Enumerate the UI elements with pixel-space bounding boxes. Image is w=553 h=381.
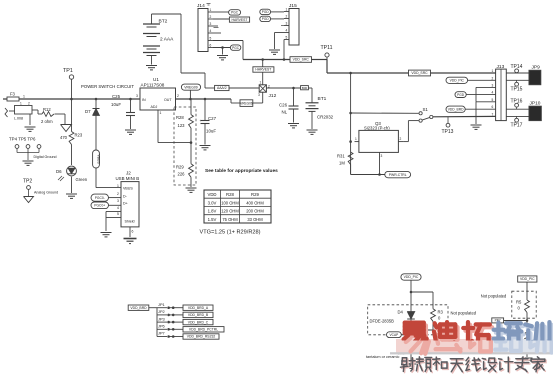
net label VDD_BRD_C: [183, 319, 213, 324]
net label VREG06: [240, 100, 253, 107]
wire R29 to ground: [190, 177, 192, 187]
svg-text:OUT: OUT: [164, 98, 172, 102]
net label VDD_SRC: [290, 57, 312, 63]
net label PGD oval J13: [455, 92, 466, 98]
svg-text:1: 1: [23, 95, 25, 99]
svg-text:VDD_SRC: VDD_SRC: [411, 71, 428, 75]
svg-text:75 OHM: 75 OHM: [222, 217, 238, 222]
svg-text:VREG09: VREG09: [184, 85, 197, 89]
svg-text:3: 3: [286, 21, 288, 25]
wire shield pin to ground: [129, 227, 131, 237]
net label PGC oval J14 pin6: [230, 45, 240, 50]
net label HARVEST J14 pin2: [213, 18, 229, 20]
resistor R5: [525, 300, 530, 313]
svg-text:PGD: PGD: [457, 93, 465, 97]
svg-text:470: 470: [60, 135, 68, 140]
wire USB pins 4,5 to ground: [106, 211, 121, 213]
wire AAA/2 run: [205, 87, 215, 89]
svg-text:R28: R28: [226, 192, 234, 197]
svg-text:2 AAA: 2 AAA: [160, 37, 174, 43]
svg-text:4: 4: [117, 206, 119, 210]
svg-text:2: 2: [286, 14, 288, 18]
svg-text:Shield: Shield: [125, 220, 135, 224]
svg-text:3: 3: [258, 93, 260, 97]
svg-text:3: 3: [117, 199, 119, 203]
ground VCAP: [406, 363, 417, 365]
svg-text:See table for appropriate valu: See table for appropriate values: [205, 168, 278, 174]
dashed box not populated D4 R3: [368, 305, 448, 335]
svg-text:PGC: PGC: [231, 11, 239, 15]
wire J12 right to BT1: [266, 87, 300, 89]
svg-text:U1: U1: [153, 77, 159, 82]
svg-text:TP2: TP2: [23, 179, 32, 185]
svg-text:R23: R23: [75, 133, 83, 138]
svg-text:TP4 TP5 TP6: TP4 TP5 TP6: [9, 137, 36, 142]
wire VDD_SRC to switch branch: [350, 73, 352, 175]
svg-text:2: 2: [400, 137, 402, 141]
dashed box not populated R5: [512, 291, 536, 318]
jumper JP3: [157, 321, 167, 323]
LED D6 Green: [67, 166, 77, 176]
svg-text:R28: R28: [176, 115, 184, 120]
svg-text:4: 4: [286, 28, 288, 32]
svg-text:1: 1: [160, 111, 162, 115]
svg-text:J2: J2: [126, 171, 131, 176]
svg-text:R29: R29: [176, 164, 184, 169]
net label AAA/2: [215, 85, 229, 90]
wire switch common to J13: [433, 115, 496, 117]
svg-text:C27: C27: [208, 116, 217, 121]
ground J13: [471, 124, 482, 126]
svg-text:TP13: TP13: [442, 129, 454, 135]
svg-text:JP3: JP3: [158, 316, 165, 321]
svg-text:S1: S1: [423, 107, 429, 112]
svg-text:DFDE-2835B: DFDE-2835B: [370, 319, 395, 324]
svg-text:R5: R5: [516, 300, 522, 305]
svg-text:D7: D7: [85, 109, 91, 114]
svg-text:1: 1: [492, 69, 494, 73]
watermark small glyph ji: [500, 358, 514, 373]
jumper JP7: [157, 336, 167, 338]
svg-text:TP17: TP17: [511, 123, 523, 129]
svg-text:JP2: JP2: [158, 309, 165, 314]
svg-text:USB MINI B: USB MINI B: [116, 176, 140, 181]
svg-text:VDD_PIC: VDD_PIC: [404, 275, 419, 279]
svg-text:1: 1: [117, 184, 119, 188]
svg-text:NL: NL: [282, 110, 288, 115]
svg-text:2: 2: [210, 15, 212, 19]
svg-text:1: 1: [260, 81, 262, 85]
wire VREG06 to J12: [253, 102, 263, 104]
watermark small glyph xian: [467, 359, 481, 372]
wire D4 to VCAP node: [410, 319, 412, 340]
net label VDD_BRD_B: [183, 312, 213, 317]
wire Q3 gate: [379, 152, 381, 174]
capacitor C27: [204, 98, 207, 101]
wire VDD_BRD to jumpers: [149, 307, 157, 309]
wire BT2 positive: [151, 14, 153, 24]
wire J13 pin6 to JP10: [506, 108, 529, 110]
wire R5 to node: [526, 313, 528, 330]
svg-text:VDD_SRC: VDD_SRC: [293, 58, 310, 62]
watermark small glyph he: [434, 358, 448, 370]
svg-text:3.0V: 3.0V: [208, 200, 217, 205]
wire J13 pin3 to ground: [476, 86, 496, 88]
fuse F3: [7, 97, 19, 101]
net label PWR-CTRL oval: [385, 171, 411, 177]
svg-text:R3: R3: [438, 310, 444, 315]
resistor R29: [189, 164, 194, 177]
wire TP11 down: [326, 60, 328, 74]
svg-text:2: 2: [177, 94, 179, 98]
watermark big glyph tuo: [465, 325, 492, 352]
resistor R3: [431, 309, 436, 322]
net label VDD_PIC oval bottom: [401, 274, 421, 280]
svg-text:6: 6: [210, 43, 212, 47]
ground jack: [29, 114, 31, 125]
svg-text:2 ohm: 2 ohm: [41, 119, 53, 124]
wire VDD_PIC right down: [526, 282, 528, 300]
svg-text:1: 1: [20, 102, 22, 106]
capacitor C26: [293, 88, 295, 106]
svg-text:C25: C25: [112, 94, 121, 99]
svg-text:120 OHM: 120 OHM: [221, 209, 239, 214]
svg-text:Si2323 (P-ch): Si2323 (P-ch): [364, 125, 390, 130]
dashed box R28 R29: [174, 107, 196, 185]
svg-text:1M: 1M: [339, 161, 345, 166]
net label BAT: [301, 86, 309, 90]
svg-text:2: 2: [28, 102, 30, 106]
resistor R28: [190, 99, 192, 115]
test point TP17: [516, 116, 518, 118]
svg-text:1: 1: [355, 137, 357, 141]
svg-text:L.008: L.008: [14, 117, 23, 121]
net label VDD_PIC rect right: [518, 276, 537, 282]
svg-text:VDD_BRD_C: VDD_BRD_C: [188, 320, 209, 324]
svg-text:ADJ: ADJ: [151, 105, 158, 109]
svg-text:VDD_BRD_B: VDD_BRD_B: [188, 313, 209, 317]
net label VCAP oval: [387, 332, 402, 338]
svg-text:VDD_BRD: VDD_BRD: [130, 306, 147, 310]
svg-text:TP11: TP11: [321, 45, 333, 51]
svg-text:JP7: JP7: [158, 331, 165, 336]
watermark big glyph xun: [527, 325, 551, 353]
svg-text:100 OHM: 100 OHM: [221, 200, 239, 205]
svg-text:123: 123: [178, 123, 186, 128]
svg-text:Not populated: Not populated: [451, 311, 477, 316]
wire R28 to ADJ node: [190, 128, 192, 164]
resistor R12: [42, 112, 54, 117]
svg-text:D+: D+: [123, 202, 128, 206]
wire VDD_SRC main run: [327, 72, 409, 74]
net label VREG09 (oval): [181, 84, 200, 90]
net label VDD_BRD_PCTRL: [183, 327, 224, 332]
no-connect J14 pin3: [213, 25, 218, 27]
watermark big glyph di: [436, 325, 461, 352]
svg-text:tantalum or ceramic: tantalum or ceramic: [366, 355, 399, 359]
svg-text:10uF: 10uF: [111, 102, 121, 107]
ground C27: [200, 145, 211, 147]
ground C25: [125, 129, 136, 131]
svg-text:1.5V: 1.5V: [208, 217, 217, 222]
svg-text:VREG06: VREG06: [240, 101, 253, 105]
svg-text:VTG=1.25 (1+ R29/R28): VTG=1.25 (1+ R29/R28): [200, 230, 261, 236]
table resistor values: [204, 190, 271, 223]
wire J13 pin1 to JP9: [506, 72, 529, 74]
svg-text:D4: D4: [398, 310, 404, 315]
ground R4: [522, 357, 533, 359]
ground BT1: [307, 129, 318, 131]
svg-text:BT1: BT1: [318, 96, 327, 102]
wire J14 pin4: [213, 32, 221, 34]
wire VDD_SRC horizontal: [243, 59, 290, 61]
watermark small glyph jia: [532, 358, 546, 373]
svg-text:5: 5: [286, 35, 288, 39]
svg-text:HARVEST: HARVEST: [255, 68, 271, 72]
svg-text:Not populated: Not populated: [481, 293, 507, 298]
svg-text:AP1117S08: AP1117S08: [141, 83, 165, 88]
svg-text:400 OHM: 400 OHM: [246, 200, 264, 205]
wire R23 to LED D6: [71, 145, 73, 166]
capacitor C24 tantalum: [406, 339, 416, 341]
net label PGD0+ (oval): [91, 202, 109, 209]
wire J15 pin4 to ground: [275, 32, 285, 34]
ground J14: [217, 55, 228, 57]
svg-text:PGC0-: PGC0-: [95, 196, 105, 200]
svg-text:3: 3: [381, 154, 383, 158]
wire R12 to node: [55, 113, 66, 115]
svg-text:6: 6: [132, 230, 134, 234]
watermark small glyph tian: [452, 360, 465, 373]
net label PGD0 oval J14 pin1: [213, 11, 229, 13]
wire jack to R12: [32, 109, 38, 111]
test point TP13: [447, 117, 449, 124]
wire J15 pin5 to VDD_SRC: [283, 39, 285, 41]
ground digital: [23, 160, 34, 162]
net label VDD_BRD_A: [183, 305, 213, 310]
svg-text:1.8V: 1.8V: [208, 209, 217, 214]
svg-text:VDD_BRD: VDD_BRD: [448, 107, 464, 111]
svg-text:1: 1: [286, 7, 288, 11]
svg-text:B00: B00: [302, 86, 308, 90]
svg-text:PWR-CTRL: PWR-CTRL: [389, 173, 407, 177]
svg-text:VDD_BRD_PCTRL: VDD_BRD_PCTRL: [189, 328, 218, 332]
net label VDD_BRD oval: [446, 106, 465, 112]
wire HARVEST vertical: [262, 60, 264, 67]
wire OUT rail: [176, 98, 232, 100]
resistor R23 470: [69, 132, 74, 145]
watermark small glyph zhuan: [516, 358, 530, 373]
svg-text:2: 2: [117, 192, 119, 196]
svg-text:R12: R12: [43, 107, 51, 112]
svg-text:Green: Green: [76, 177, 88, 182]
watermark small glyph she2: [483, 359, 497, 372]
net label PB7: [492, 318, 504, 323]
wire to switch upper throw: [351, 112, 419, 114]
svg-text:1: 1: [210, 8, 212, 12]
net label VBUS vertical: [93, 150, 100, 168]
svg-text:TP15: TP15: [511, 87, 523, 93]
svg-text:VDD_BRD_A: VDD_BRD_A: [188, 306, 209, 310]
svg-text:D6: D6: [56, 169, 62, 174]
svg-text:2: 2: [492, 76, 494, 80]
net label PGD oval J15 pin2: [260, 16, 271, 21]
svg-text:VDD_PIC: VDD_PIC: [520, 277, 535, 281]
ground USB pins: [101, 232, 112, 234]
connector J1 power jack: [5, 108, 8, 117]
wire J14 pin5 to VDD_SRC run: [213, 40, 243, 42]
svg-text:Digital Ground: Digital Ground: [34, 155, 57, 159]
wire VBUS to USB pin1: [95, 168, 97, 188]
svg-text:PGD: PGD: [262, 10, 270, 14]
svg-text:POWER SWITCH CIRCUIT: POWER SWITCH CIRCUIT: [81, 84, 134, 89]
power flag node: [61, 125, 72, 132]
wire J13 pin7 to JP10: [506, 115, 529, 117]
diode D7: [95, 98, 98, 101]
wire R31 to PWR-CTRL: [350, 165, 352, 175]
jumper J12: [259, 85, 266, 92]
svg-text:5: 5: [210, 36, 212, 40]
svg-text:F3: F3: [10, 92, 16, 97]
svg-text:C26: C26: [279, 103, 288, 108]
watermark small glyph she1: [402, 359, 417, 373]
wire VDD_PIC down: [410, 280, 412, 311]
svg-text:4: 4: [210, 29, 212, 33]
svg-text:7: 7: [492, 112, 494, 116]
no-connect J15 pin3: [281, 25, 284, 27]
ground analog: [24, 197, 34, 203]
svg-text:200 OHM: 200 OHM: [246, 209, 264, 214]
ground BT2: [146, 65, 157, 67]
svg-text:6: 6: [492, 105, 494, 109]
capacitor C25: [129, 98, 132, 101]
svg-text:Analog Ground: Analog Ground: [34, 191, 58, 195]
svg-text:JP6: JP6: [158, 324, 165, 329]
svg-text:R31: R31: [337, 154, 345, 159]
svg-text:4: 4: [492, 91, 494, 95]
svg-text:VDD_BRD_RS232: VDD_BRD_RS232: [187, 335, 216, 339]
jumper JP1: [157, 307, 167, 309]
wire TP1 down to flag: [71, 99, 73, 132]
diode D4: [407, 312, 415, 320]
resistor R4 1K: [525, 329, 530, 342]
svg-text:J12: J12: [269, 93, 277, 99]
jumper JP2: [157, 314, 167, 316]
wire J13 pin5 to ground: [476, 101, 496, 103]
svg-text:IN: IN: [142, 98, 146, 102]
svg-text:5: 5: [492, 98, 494, 102]
wire R4 to ground: [526, 342, 528, 357]
svg-text:HARVEST: HARVEST: [232, 18, 248, 22]
svg-text:10uF: 10uF: [206, 129, 216, 134]
resistor R31 1M: [348, 152, 353, 165]
ground R29: [186, 187, 197, 189]
watermark small glyph pin: [418, 358, 433, 373]
svg-text:VDD: VDD: [207, 192, 216, 197]
net label VDD_BRD_RS232: [183, 334, 219, 339]
ground shield: [124, 238, 137, 240]
svg-text:TP1: TP1: [63, 68, 73, 74]
ground J15: [269, 49, 280, 51]
svg-text:PGD: PGD: [262, 17, 270, 21]
svg-text:226: 226: [178, 172, 186, 177]
wire LED to ground: [71, 177, 73, 193]
wire ADJ pin: [157, 110, 159, 143]
svg-text:VDD_PIC: VDD_PIC: [450, 78, 465, 82]
svg-text:JP1: JP1: [158, 302, 165, 307]
svg-text:VBUS: VBUS: [97, 154, 101, 164]
svg-text:PGC0+: PGC0+: [94, 203, 105, 207]
ground C26: [288, 123, 299, 125]
svg-text:5: 5: [117, 212, 119, 216]
wire main rail: [3, 98, 140, 100]
svg-text:AAA/2: AAA/2: [217, 86, 227, 90]
net label HARVEST 2: [253, 67, 274, 72]
svg-text:JP9: JP9: [532, 65, 541, 71]
wire BT1 to ground: [311, 111, 313, 129]
svg-text:3: 3: [210, 22, 212, 26]
svg-text:VBUS: VBUS: [123, 186, 133, 190]
svg-text:3: 3: [136, 94, 138, 98]
watermark big glyph pei: [495, 325, 523, 350]
wire Q3 drain to switch: [403, 141, 408, 143]
watermark big glyph yi: [406, 325, 429, 353]
svg-text:3: 3: [492, 83, 494, 87]
wire R3 down: [432, 321, 434, 330]
wire BT2 negative to ground: [151, 56, 153, 65]
net label VDD_BRD main: [128, 305, 149, 310]
wire J14 pin6 and ground: [213, 47, 230, 49]
net label PGD0- (oval): [91, 194, 109, 201]
net label VDD_SRC 2: [409, 70, 431, 76]
svg-text:VCAP: VCAP: [390, 333, 399, 337]
svg-text:CR2032: CR2032: [317, 115, 334, 120]
svg-text:PGC: PGC: [232, 46, 240, 50]
net label PGD oval J15 pin1: [260, 9, 271, 14]
net label VDD_PIC oval: [446, 77, 468, 83]
jumper JP6: [157, 328, 167, 330]
svg-text:33 OHM: 33 OHM: [247, 217, 263, 222]
ground LED: [66, 193, 77, 195]
svg-text:R29: R29: [251, 192, 259, 197]
test point TP15: [516, 80, 518, 82]
wire J13 pin2 to JP9: [506, 79, 529, 81]
